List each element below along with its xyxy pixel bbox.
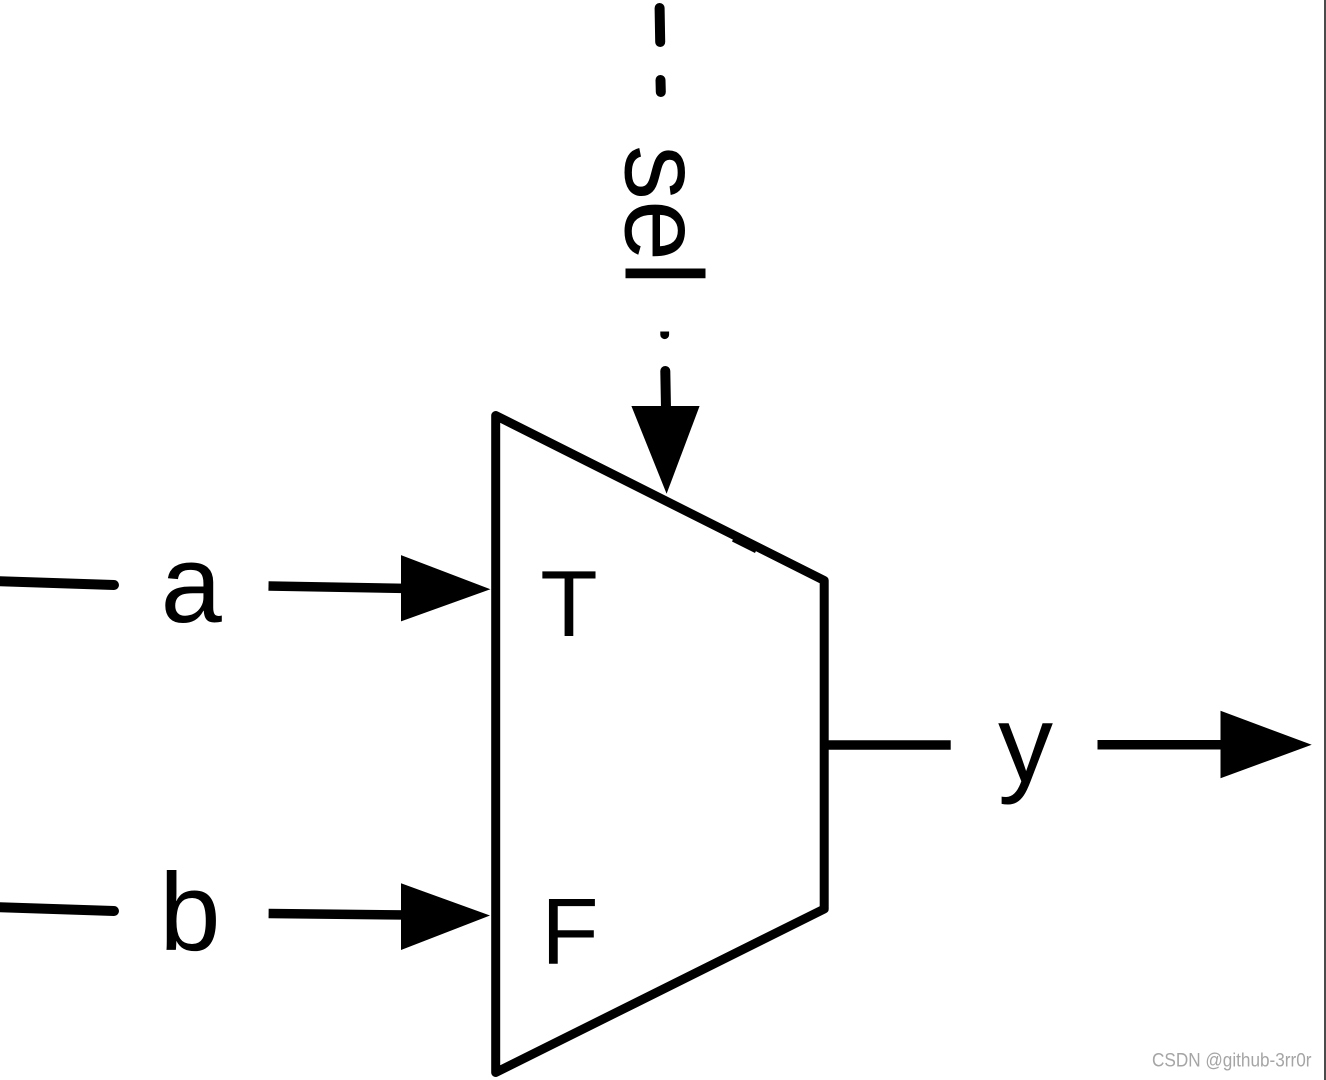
arrowhead a into T	[401, 555, 490, 621]
svg-text:CSDN @github-3rr0r: CSDN @github-3rr0r	[1152, 1050, 1312, 1072]
wire overlap nick on top edge	[734, 538, 757, 550]
arrowhead y output	[1221, 711, 1312, 778]
dashed sel wire segment 1	[655, 8, 666, 42]
wire a input stub	[0, 581, 114, 585]
dashed sel wire segment 4	[660, 371, 671, 409]
dashed sel wire dot segment 3	[660, 332, 669, 340]
svg-text:F: F	[541, 879, 598, 984]
arrowhead sel into mux top	[631, 406, 699, 494]
wire b input stub	[0, 907, 114, 911]
wire y arrow shaft	[1098, 740, 1236, 750]
wire a arrow shaft	[269, 586, 411, 589]
svg-text:b: b	[159, 851, 220, 974]
dashed sel wire segment 2	[656, 80, 666, 92]
svg-text:T: T	[540, 551, 597, 656]
svg-text:a: a	[161, 523, 223, 646]
wire y output from mux	[825, 740, 951, 750]
svg-text:y: y	[998, 683, 1053, 806]
mux trapezoid U1	[496, 416, 825, 1073]
svg-text:sel: sel	[602, 145, 725, 286]
arrowhead b into F	[401, 883, 490, 950]
wire b arrow shaft	[269, 914, 410, 916]
